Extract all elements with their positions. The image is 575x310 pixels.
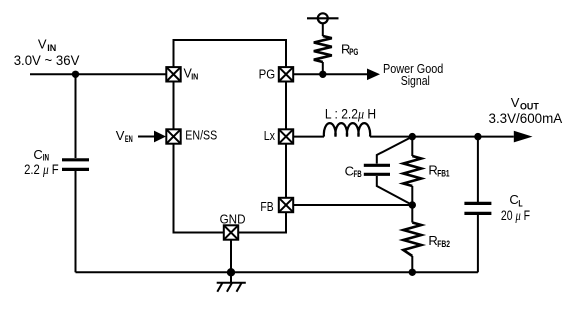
wire GND pin to rail [230, 240, 232, 273]
pin EN/SS [166, 129, 180, 143]
svg-text:L : 2.2μ H: L : 2.2μ H [325, 107, 376, 122]
wire FB to node [293, 204, 412, 206]
svg-text:FB1: FB1 [437, 168, 449, 178]
arrow Power Good output [367, 69, 380, 81]
wire RPG branch upper lead [322, 23, 324, 36]
svg-text:C: C [33, 147, 42, 162]
capacitor CFB top diagonal [377, 137, 413, 164]
node VOUT node [409, 133, 416, 140]
svg-text:V: V [511, 95, 520, 110]
arrow VOUT output [514, 131, 533, 143]
svg-text:FB2: FB2 [437, 239, 450, 249]
node PG junction [319, 71, 326, 78]
resistor RFB2 leads [411, 205, 413, 223]
wire input VIN horizontal [30, 73, 166, 75]
terminal circle pull-up [318, 13, 328, 23]
wire inductor to VOUT node [370, 136, 514, 138]
inductor L 2.2uH [324, 123, 370, 136]
svg-text:PG: PG [349, 47, 358, 57]
svg-text:FB: FB [260, 200, 273, 214]
svg-text:GND: GND [220, 212, 246, 226]
arrow EN/SS input [154, 131, 166, 143]
node GND rail junction [227, 268, 235, 276]
terminal bar [307, 17, 339, 19]
capacitor CL plates [464, 202, 491, 205]
wire PG to arrow [293, 73, 368, 75]
svg-text:FB: FB [354, 169, 363, 179]
resistor RPG [314, 36, 332, 62]
wire Lx to inductor [293, 136, 324, 138]
capacitor CIN leads [75, 74, 77, 158]
node FB node [409, 201, 416, 208]
wire bottom ground rail [76, 271, 478, 273]
svg-text:Signal: Signal [401, 74, 430, 88]
wire VEN arrow line [138, 136, 156, 138]
pin VIN [166, 67, 180, 81]
capacitor CIN plates [62, 158, 89, 161]
svg-text:IN: IN [47, 43, 56, 53]
svg-text:C: C [509, 192, 518, 207]
svg-text:V: V [116, 128, 125, 143]
node RFB2 bottom [409, 269, 416, 276]
pin FB [279, 198, 293, 212]
wire RPG branch lower lead [322, 62, 324, 74]
ground symbol [217, 272, 246, 291]
node input junction [72, 71, 79, 78]
svg-text:L: L [518, 198, 523, 208]
svg-text:EN/SS: EN/SS [185, 128, 217, 142]
pin PG [279, 67, 293, 81]
capacitor CL leads [477, 137, 479, 202]
capacitor CFB plates [364, 164, 390, 167]
resistor RFB2 [403, 223, 421, 257]
capacitor CFB bottom diagonal [377, 176, 413, 205]
svg-text:3.0V ~ 36V: 3.0V ~ 36V [14, 53, 80, 68]
svg-text:PG: PG [259, 67, 276, 81]
resistor RFB1 [403, 156, 421, 186]
svg-text:2.2 μ F: 2.2 μ F [24, 162, 59, 177]
pin Lx [279, 129, 293, 143]
svg-text:3.3V/600mA: 3.3V/600mA [489, 111, 563, 126]
pin GND [224, 225, 238, 239]
svg-text:20 μ F: 20 μ F [501, 208, 530, 223]
svg-text:IN: IN [191, 71, 198, 81]
svg-text:V: V [38, 37, 47, 52]
svg-text:EN: EN [125, 134, 133, 144]
resistor RFB1 leads [411, 137, 413, 156]
op-amp U1 IC body [174, 40, 287, 233]
node CL top [474, 133, 481, 140]
svg-text:Lx: Lx [264, 129, 276, 143]
